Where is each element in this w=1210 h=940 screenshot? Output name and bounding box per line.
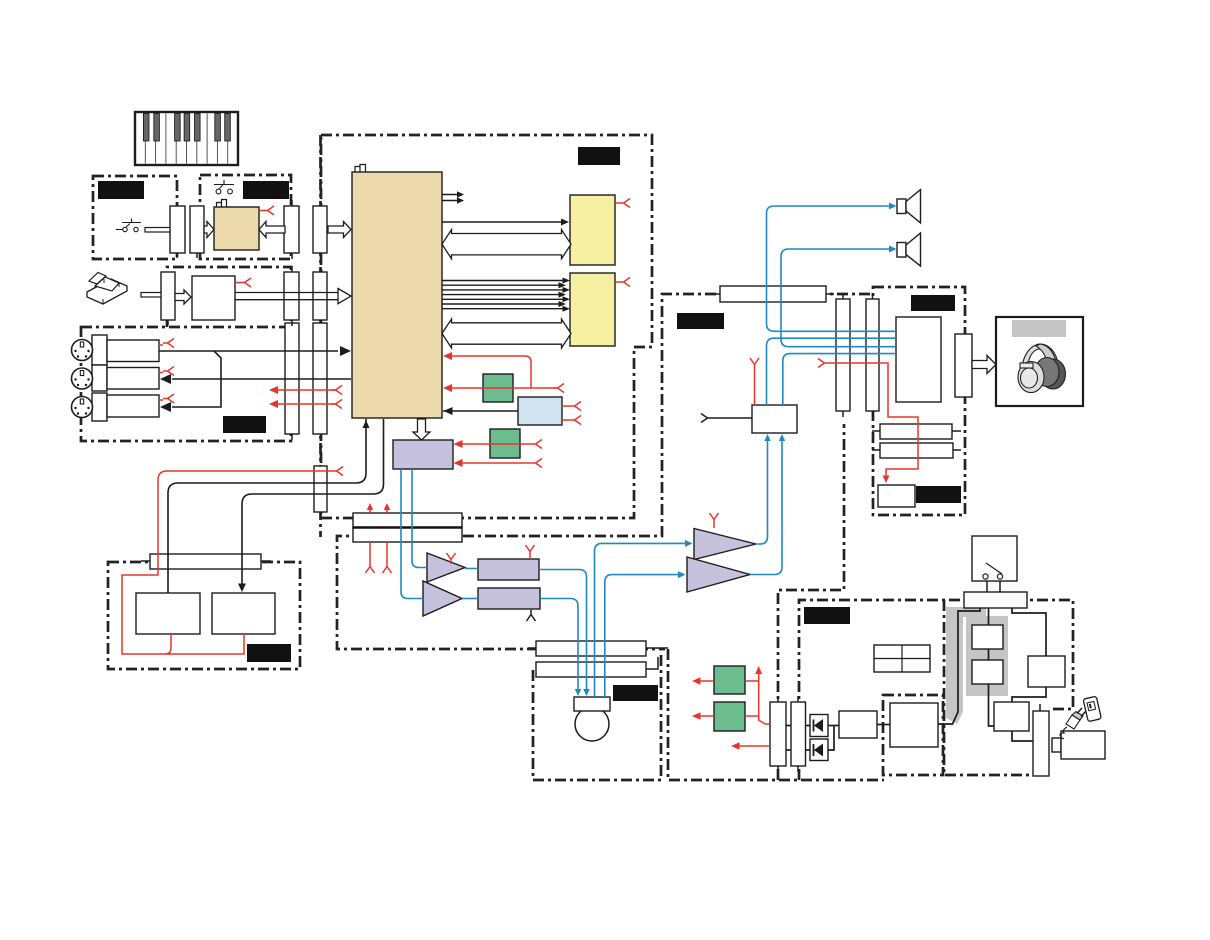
- red fork: filter A top: [529, 556, 531, 559]
- label: main board name: [578, 147, 620, 165]
- arrowhead: panel signal B down into switch block 2: [238, 584, 246, 593]
- pilot lamp block: [878, 485, 915, 507]
- icon: switch symbol in switch block: [214, 180, 234, 189]
- wire: connector stubs V1 V2: [777, 696, 779, 702]
- icon: speaker 2: [897, 243, 906, 258]
- wire: amp bars stubs: [872, 430, 880, 432]
- transformer block: [890, 703, 938, 747]
- icon: MIDI DIN connector 1: [72, 340, 93, 361]
- block arrow: headphone jack to headphones: [972, 356, 996, 374]
- wire: panel bar stubs: [141, 560, 150, 562]
- label: mic section name: [613, 685, 658, 701]
- label: switch block name: [243, 181, 289, 199]
- connector: panel wire board connector: [314, 466, 327, 512]
- section border: transformer block: [883, 695, 943, 775]
- wire: MIDI branch diagonal to THRU: [172, 351, 221, 407]
- power block B4: [994, 702, 1029, 731]
- RAM (yellow): [570, 273, 615, 346]
- headphone label plate (gray): [1012, 320, 1066, 337]
- wire: keyboard-row connector stubs: [291, 254, 293, 259]
- section border: switch block: [200, 175, 291, 259]
- label: power amp block name: [911, 295, 955, 311]
- arrowhead: into MIDI IN jack: [160, 374, 171, 384]
- MIDI jack body 1: [107, 340, 159, 362]
- label: keyboard block name: [98, 181, 144, 199]
- filter block B (lavender): [478, 588, 540, 609]
- icon: AC wall outlet: [1083, 696, 1101, 721]
- label: MIDI block name: [223, 416, 266, 433]
- bus: main LSI-ROM data double arrow: [442, 230, 571, 259]
- panel connector bar: [150, 554, 261, 569]
- wire: power switch leads: [986, 581, 988, 592]
- speaker/amp connector column 2: [866, 299, 879, 411]
- icon: AC plug: [1060, 708, 1086, 739]
- gray shield background behind rectifier blocks: [966, 616, 1008, 696]
- microphone head block: [574, 697, 610, 711]
- red fork: main LSI power line: [553, 384, 564, 393]
- wire: column connector stubs (amp section): [842, 293, 844, 299]
- wire: oscillator to main LSI: [443, 410, 518, 412]
- amp triangle T1 (lavender): [427, 553, 465, 582]
- wire: main-amp bar stubs: [712, 293, 720, 295]
- red wire: MIDI power feed upper: [272, 389, 336, 391]
- connector pair: keyboard row left connector: [170, 206, 185, 253]
- connector: keyboard row board-edge connector left half: [284, 206, 299, 253]
- bus: main LSI-RAM data double arrow: [442, 319, 571, 348]
- gray cable shield band: [946, 607, 986, 724]
- main-to-amp connector bar: [720, 286, 826, 302]
- red wire: panel power wire from board connector to panel blocks: [122, 471, 332, 654]
- wire: connector V1-V2 links: [786, 725, 791, 727]
- connector: MIDI row board-edge connector left half: [285, 323, 299, 434]
- power amp triangle T3 (lavender): [694, 529, 756, 560]
- wire: block B4 to DC jack: [1012, 731, 1033, 741]
- wire: panel signal A from main LSI down-left to panel connector: [168, 419, 366, 593]
- black fork: filter B aux down: [527, 610, 536, 621]
- blue wire: DAC right channel to T1: [412, 469, 427, 568]
- arrowhead: panel signal A up into main LSI: [363, 420, 370, 428]
- connector: MIDI DIN socket block 1: [92, 335, 107, 365]
- panel switch block 1: [136, 593, 200, 634]
- blue wire: mic up to power amp T4: [605, 575, 680, 697]
- red fork: amp power feed start: [818, 359, 829, 368]
- power connector V2: [791, 702, 806, 766]
- fuse rating table: [874, 645, 930, 672]
- rectifier block 1: [972, 625, 1003, 649]
- speaker/amp connector column 1: [836, 299, 850, 411]
- icon: speaker 1: [897, 199, 906, 214]
- blue wire: mic up to power amp T3: [595, 543, 688, 697]
- arrowhead: oscillator into main LSI: [444, 407, 453, 415]
- section border: panel board block: [108, 562, 300, 669]
- regulator IC G2 (green): [490, 429, 520, 458]
- wire: block B3 to B4: [1012, 687, 1046, 702]
- black fork: selector left input cable: [701, 414, 712, 423]
- headphone outline box: [996, 317, 1083, 406]
- power connector V1: [770, 702, 786, 766]
- section border: keyboard contacts block: [93, 176, 177, 259]
- blue wire: T2 to filter B: [462, 598, 478, 600]
- blue wire: DAC left channel to T2: [401, 469, 423, 599]
- block arrow: key-scan LSI from board connector (left-pointing): [259, 222, 285, 238]
- wire: bar1 left stub: [528, 647, 536, 649]
- connector: MIDI row board-edge connector right half: [313, 323, 327, 434]
- AC adaptor box: [1061, 731, 1105, 759]
- wire: AC mains lead to transformer (left path): [938, 608, 980, 724]
- red fork: MIDI jack 2: [159, 372, 163, 374]
- icon: MIDI DIN connector 2: [72, 368, 93, 389]
- label: panel board name: [247, 644, 291, 662]
- wire: block B5 to diode D1: [828, 725, 839, 727]
- diode block D2: [810, 739, 828, 761]
- connector: MIDI DIN socket block 2: [92, 365, 107, 391]
- icon: MIDI DIN connector 3: [72, 397, 93, 418]
- regulator IC G3 (green): [714, 666, 745, 694]
- red forks: connector stack power (below): [370, 542, 387, 562]
- connector: pedal row board-edge connector left half: [284, 272, 299, 320]
- blue wire: amp IC to speaker 1 line: [767, 206, 897, 331]
- red fork: MIDI jack 3: [159, 399, 163, 401]
- AC adaptor plug stub: [1052, 738, 1061, 752]
- blue wire: T3 output up to selector: [756, 438, 768, 544]
- wire: MIDI OUT jack to main LSI: [159, 350, 338, 352]
- section border: board boundary line: [319, 135, 322, 537]
- icon: switch symbol in keyboard block: [116, 219, 141, 230]
- red fork: amp triangle T1 top: [447, 553, 456, 564]
- oscillator block (light blue): [518, 397, 562, 425]
- amp triangle T2 (lavender): [423, 581, 462, 616]
- connector: pedal row board-edge connector right half: [313, 272, 327, 320]
- block arrow: key matrix into key-scan LSI: [204, 222, 214, 238]
- wire: transformer secondary to rectifier chain: [989, 608, 995, 726]
- block arrow head: pedal bus into main LSI: [338, 289, 351, 304]
- DAC block (lavender): [393, 440, 453, 469]
- section border: regulator section: [668, 424, 884, 780]
- power block B3: [1028, 656, 1065, 687]
- wire: bar1 right stub: [646, 647, 668, 649]
- red wire: MIDI power feed lower: [272, 403, 336, 405]
- bus: main LSI to ROM address line: [442, 221, 563, 223]
- arrowhead: into MIDI THRU jack: [160, 402, 171, 412]
- icon: crystal above main LSI: [355, 165, 366, 173]
- connector: keyboard row board-edge connector right half: [313, 206, 327, 253]
- section border: pedal block: [167, 267, 291, 327]
- main LSI (tan): [352, 172, 442, 418]
- section border: power connector section and power supply board: [799, 600, 1073, 780]
- blue wire: selector out 2 to amp IC: [783, 354, 896, 405]
- power switch box: [972, 536, 1017, 581]
- block arrow: main LSI down to DAC: [413, 419, 430, 440]
- pedal interface block: [192, 276, 235, 320]
- power board connector bar: [964, 592, 1027, 608]
- red fork: tan key-scan LSI: [259, 210, 263, 212]
- section border: speaker/selector section: [337, 294, 870, 649]
- headphone jack block: [955, 334, 972, 397]
- red wire: amp section power feed: [829, 363, 918, 476]
- icon: crystal above key-scan LSI: [217, 200, 227, 208]
- wire: panel signal B from main LSI down-left to panel switch 2: [242, 419, 384, 585]
- red fork: ROM: [615, 202, 619, 204]
- mic board connector bar 2: [536, 662, 646, 677]
- wire: MIDI IN line from main board: [172, 378, 351, 380]
- label: power board name: [804, 607, 850, 624]
- blue wire: amp IC to speaker 2 line: [781, 249, 896, 347]
- label: pilot lamp name: [916, 486, 961, 503]
- block arrow: pedal connector into pedal block: [175, 290, 191, 304]
- power amplifier IC: [896, 317, 941, 402]
- power amp triangle T4 (lavender): [687, 557, 750, 592]
- wire: pedal to connector (flat cable): [141, 293, 161, 298]
- wire: selector block left input: [712, 417, 752, 419]
- regulator IC G4 (green): [714, 702, 745, 731]
- MIDI jack body 2: [107, 368, 159, 390]
- blue wire: selector out 1 to amp IC: [767, 338, 897, 405]
- red arrows: connector stack power (up arrows above): [370, 506, 387, 513]
- MIDI jack body 3: [107, 395, 159, 417]
- wire: bar2 right stub: [646, 657, 658, 669]
- blue wire: T4 output up to selector: [750, 438, 782, 575]
- red fork: pedal block: [235, 282, 240, 284]
- amp board connector bar 1: [880, 424, 952, 439]
- regulator IC G1 (green): [483, 374, 513, 402]
- microphone capsule circle: [575, 707, 609, 741]
- board-to-board connector stack upper half: [353, 513, 462, 528]
- blue wire: filter B out down to mic board: [540, 599, 578, 691]
- blue wire: filter A out down to mic board: [539, 570, 587, 691]
- red fork: MIDI jack 1: [159, 344, 163, 346]
- board-to-board connector stack lower half: [353, 528, 462, 543]
- red wire: V1 to regulators and up arrow: [745, 670, 770, 724]
- bus: main LSI top control arrows: [442, 194, 459, 196]
- red wire: into main LSI right side (two arrows): [447, 356, 558, 388]
- wire: pedal bus shaft to main LSI: [235, 292, 338, 294]
- wire: connector V2 to diodes: [806, 725, 811, 727]
- icon: headphones: [1018, 344, 1066, 393]
- connector: MIDI DIN socket block 3: [92, 393, 107, 421]
- DC jack connector: [1033, 711, 1049, 776]
- red wire: regulator G2 to DAC: [457, 443, 520, 445]
- red wire: selector block top power: [754, 369, 756, 405]
- wire: power bar to block B3: [1012, 608, 1046, 656]
- section border: MIDI block: [81, 327, 291, 441]
- diode block D1: [810, 715, 828, 737]
- red fork: RAM: [615, 281, 619, 283]
- icon: power switch contacts: [986, 563, 1002, 574]
- ROM (yellow): [570, 195, 615, 265]
- section border: main board: [321, 135, 652, 518]
- wire: diode D2 merge to B5 line: [828, 726, 834, 751]
- bus: main LSI to RAM address lines (7): [442, 280, 564, 282]
- red fork: G2 right: [520, 443, 531, 445]
- icon: piano keyboard: [135, 112, 238, 165]
- power block B5: [839, 711, 877, 738]
- red forks: oscillator block: [562, 405, 570, 407]
- section border: mic section: [533, 655, 661, 780]
- red fork: power amp T3 top: [713, 524, 715, 528]
- connector: pedal row connector: [161, 272, 175, 320]
- mic board connector bar 1: [536, 641, 646, 656]
- filter block A (lavender): [478, 559, 539, 580]
- output selector block: [752, 405, 797, 433]
- label: selector section name: [677, 313, 724, 329]
- section border: power amp block: [873, 287, 965, 515]
- red wires: regulators G3 G4 output arrows: [695, 680, 714, 682]
- red wire: V1 lower output arrow: [735, 745, 770, 747]
- wire: keyboard switch to connector (flat cable): [145, 228, 170, 233]
- block arrow: keyboard row into main LSI: [328, 222, 351, 238]
- wire: DC jack top stub: [1039, 704, 1041, 711]
- rectifier block 2: [972, 660, 1003, 684]
- red wire: DAC lower power line: [457, 462, 531, 464]
- arrowhead: MIDI OUT line into main LSI: [340, 346, 351, 356]
- icon: pedal unit: [87, 279, 127, 304]
- panel switch block 2: [212, 593, 275, 634]
- amp board connector bar 2: [880, 443, 953, 458]
- connector pair: keyboard row right connector: [190, 206, 204, 253]
- blue wire: T1 to filter A: [465, 568, 478, 570]
- wire: transformer to block B5: [877, 724, 890, 726]
- key-scan LSI (tan): [214, 207, 259, 250]
